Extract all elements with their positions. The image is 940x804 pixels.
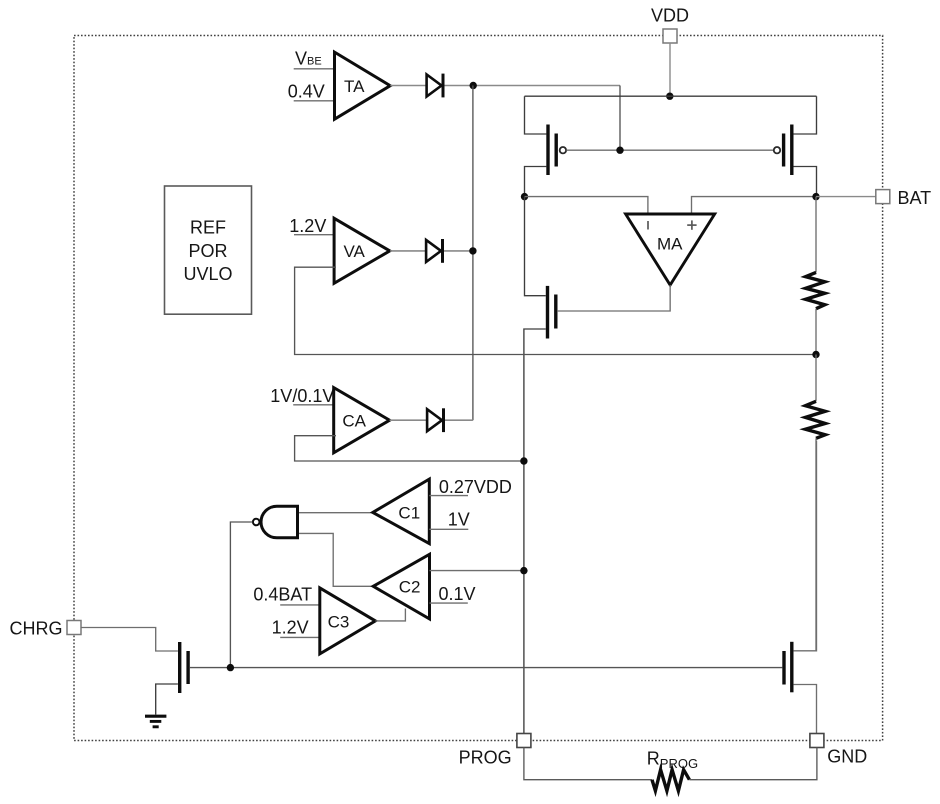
- wire Q1 drain lead to minus node: [525, 167, 547, 197]
- svg-text:1.2V: 1.2V: [272, 617, 309, 637]
- svg-text:GND: GND: [827, 747, 867, 767]
- node C2 PROG junction: [520, 567, 527, 574]
- node VDD-rail junction: [666, 93, 673, 100]
- wire Q5 gate to NAND junction and Q4 gate: [190, 667, 782, 669]
- node TA/VA/CA wired-OR junction: [470, 82, 477, 89]
- node divider junction: [812, 351, 819, 358]
- wire minus node to MA inverting input: [525, 197, 648, 213]
- op-amp CA: [334, 388, 390, 453]
- IC boundary (dashed): [74, 36, 883, 741]
- resistor R1: [806, 197, 825, 355]
- label VBE: [295, 48, 322, 68]
- node NAND output gate junction: [227, 664, 234, 671]
- svg-text:BAT: BAT: [898, 188, 932, 208]
- wire vertical OR line joining D1 D2 D3 outputs: [472, 86, 474, 421]
- svg-text:C2: C2: [399, 578, 421, 597]
- diode D2: [426, 239, 442, 263]
- svg-text:1.2V: 1.2V: [289, 216, 326, 236]
- wire C3 output to C2 lower input: [375, 609, 405, 621]
- node D2 OR junction: [469, 247, 476, 254]
- wire TA output to diode D1: [390, 85, 426, 87]
- wire MA non-inverting input to BAT line: [692, 197, 817, 213]
- label 0.4V: [288, 82, 325, 102]
- diode D1: [427, 74, 443, 98]
- node CA feedback PROG junction: [520, 457, 527, 464]
- svg-text:0.4BAT: 0.4BAT: [253, 585, 312, 605]
- wire CA feedback to PROG line: [295, 436, 524, 461]
- wire RPROG to GND pin: [689, 748, 817, 780]
- wire CHRG pin to Q5 drain: [81, 628, 178, 652]
- wire Q3 source lead down to PROG line: [524, 329, 546, 734]
- wire drop from y85 to PMOS gate line: [619, 86, 621, 151]
- transistor Q3 (NMOS middle): [548, 286, 556, 339]
- wire Q2 drain lead to BAT node: [793, 167, 816, 197]
- wire C1 input stub 0.27VDD: [429, 495, 468, 497]
- wire C2 top input to PROG line: [430, 570, 524, 572]
- wire D3 output to OR line: [445, 419, 473, 421]
- wire NAND bottom input from C2: [299, 533, 373, 586]
- svg-text:UVLO: UVLO: [183, 264, 232, 284]
- wire VA input stub 1.2V: [294, 234, 336, 236]
- wire Q1 source lead: [525, 96, 547, 134]
- wire Q5 source lead to ground: [156, 684, 178, 715]
- wire MA output to Q3 gate: [558, 285, 670, 311]
- svg-text:CHRG: CHRG: [10, 619, 63, 639]
- wire TA input stub VBE: [294, 68, 336, 70]
- pin CHRG: [10, 619, 82, 639]
- diode D3: [427, 408, 443, 432]
- wire NAND output down to gate-wire junction: [230, 522, 252, 668]
- node gate line junction: [616, 147, 623, 154]
- wire VA output to diode D2: [390, 250, 425, 252]
- wire Q4 source lead down to GND pin: [794, 685, 817, 734]
- ground: [145, 716, 166, 727]
- label 1V: [448, 510, 470, 530]
- wire PMOS gate line: [566, 149, 773, 151]
- svg-text:1V/0.1V: 1V/0.1V: [270, 386, 334, 406]
- wire Q2 source lead: [793, 96, 816, 134]
- wire NAND top input from C1: [299, 512, 373, 514]
- svg-text:REF: REF: [190, 218, 226, 238]
- resistor RPROG: [652, 770, 689, 791]
- svg-text:0.1V: 0.1V: [439, 584, 476, 604]
- wire Q4 drain lead up to R2: [794, 441, 817, 651]
- label 1V/0.1V: [270, 386, 334, 406]
- wire C3 input stub 1.2V: [280, 636, 321, 638]
- transistor Q4 (NMOS bottom right): [784, 642, 792, 693]
- wire PROG pin to RPROG: [524, 748, 652, 780]
- wire TA input stub 0.4V: [294, 100, 336, 102]
- op-amp MA: [626, 214, 715, 285]
- resistor R2: [805, 355, 825, 651]
- comparator C1: [373, 479, 430, 543]
- label 0.27VDD: [439, 477, 512, 497]
- transistor Q2 (PMOS right): [774, 125, 792, 176]
- wire D1 output to gate-drop corner: [445, 85, 621, 87]
- node BAT junction: [812, 193, 819, 200]
- wire CA input stub 1V/0.1V: [293, 404, 336, 406]
- svg-text:1V: 1V: [448, 510, 470, 530]
- svg-text:POR: POR: [188, 241, 227, 261]
- wire C2 input stub 0.1V: [430, 602, 468, 604]
- node Q1 drain junction: [521, 193, 528, 200]
- label RPROG: [647, 748, 698, 770]
- REF POR UVLO block: [165, 186, 252, 314]
- svg-text:PROG: PROG: [459, 748, 512, 768]
- svg-text:C3: C3: [328, 613, 350, 632]
- wire Q3 drain lead up to minus node: [525, 197, 546, 296]
- svg-text:TA: TA: [344, 77, 365, 96]
- svg-text:C1: C1: [398, 504, 420, 523]
- wire CA output to diode D3: [390, 419, 427, 421]
- wire VA feedback to resistor divider: [295, 267, 816, 354]
- wire C1 input stub 1V: [429, 528, 468, 530]
- transistor Q5 (CHRG NMOS): [180, 642, 188, 693]
- wire VDD pin to top rail: [669, 43, 671, 96]
- NAND gate U1: [253, 506, 298, 538]
- wire D2 output to OR line: [444, 250, 473, 252]
- label 0.1V: [439, 584, 476, 604]
- label 1.2V: [272, 617, 309, 637]
- svg-text:0.4V: 0.4V: [288, 82, 325, 102]
- wire BAT node to BAT pin: [816, 196, 876, 198]
- label 0.4BAT: [253, 585, 312, 605]
- comparator C3: [320, 588, 376, 654]
- pin VDD: [651, 6, 689, 44]
- op-amp VA: [334, 218, 390, 283]
- label 1.2V: [289, 216, 326, 236]
- pin BAT: [876, 188, 931, 208]
- wire C3 input stub 0.4BAT: [280, 604, 321, 606]
- pin PROG: [459, 734, 531, 768]
- svg-text:VA: VA: [343, 242, 365, 261]
- wire top supply rail: [525, 95, 817, 97]
- svg-text:MA: MA: [657, 235, 683, 254]
- svg-text:VDD: VDD: [651, 6, 689, 26]
- svg-text:CA: CA: [342, 412, 366, 431]
- comparator C2: [373, 554, 429, 619]
- op-amp TA: [335, 52, 391, 119]
- pin GND: [810, 734, 867, 767]
- svg-text:0.27VDD: 0.27VDD: [439, 477, 512, 497]
- transistor Q1 (PMOS left): [548, 125, 566, 176]
